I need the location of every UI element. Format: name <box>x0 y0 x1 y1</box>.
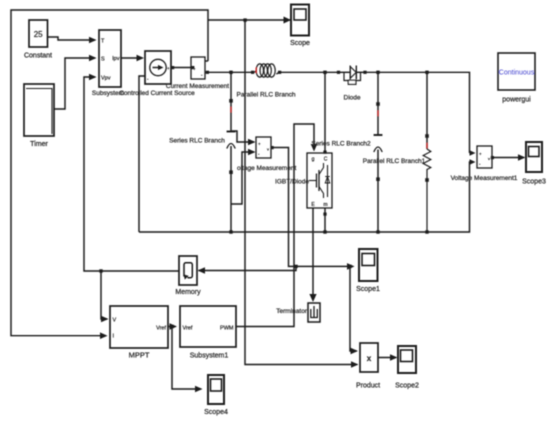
svg-text:Scope4: Scope4 <box>204 409 228 416</box>
wire: current signal top feedback bus <box>11 10 208 339</box>
wire: voltage measurement minus tap <box>231 149 256 204</box>
svg-text:Scope3: Scope3 <box>522 179 546 186</box>
svg-text:25: 25 <box>34 30 43 39</box>
wire: gate drive from PWM <box>236 124 317 327</box>
scope block Scope3 <box>522 142 546 186</box>
svg-text:Series RLC Branch: Series RLC Branch <box>169 138 225 145</box>
wire: current signal down to Product <box>245 20 359 368</box>
inductor L1 (Parallel RLC Branch) <box>237 64 296 99</box>
svg-text:v: v <box>267 147 269 152</box>
capacitor C_in (Series RLC Branch) <box>169 72 235 232</box>
wire: voltage signal down to Product input 1 <box>350 266 358 354</box>
svg-text:S: S <box>101 57 105 63</box>
wire: Vref branch down to Scope4 <box>172 327 203 393</box>
svg-text:Subsystem1: Subsystem1 <box>190 353 229 360</box>
svg-text:IGBT/Diode: IGBT/Diode <box>275 179 309 186</box>
svg-text:Product: Product <box>356 383 380 390</box>
diode D1 <box>337 66 367 102</box>
current measurement U3 <box>166 57 229 90</box>
scope block Scope2 <box>395 346 419 390</box>
wire: Constant to Subsystem T <box>48 37 97 44</box>
wire: Voltage Measurement1 output to Scope3 <box>491 154 526 161</box>
wire: voltage measurement plus tap <box>232 131 256 145</box>
svg-text:powergui: powergui <box>502 97 531 104</box>
node: junction memory output to MPPT V <box>99 269 102 272</box>
node: bus junction at input capacitor <box>229 71 232 74</box>
wire: Subsystem Ipv to Controlled Current Source <box>121 55 144 62</box>
svg-text:Vref: Vref <box>156 326 166 332</box>
svg-text:Ipv: Ipv <box>112 56 120 62</box>
wire: current measurement i output to Scope <box>205 17 291 62</box>
svg-text:+: + <box>479 152 482 157</box>
scope block Scope4 <box>204 375 228 416</box>
svg-text:+: + <box>167 66 170 71</box>
node: rail junction at IGBT emitter <box>323 230 326 233</box>
svg-text:m: m <box>323 202 327 208</box>
node: bus junction at IGBT collector <box>323 71 326 74</box>
svg-text:MPPT: MPPT <box>129 351 150 360</box>
node: junction voltage signal to memory <box>294 265 297 268</box>
svg-text:C: C <box>324 157 328 163</box>
svg-text:V: V <box>113 318 117 324</box>
svg-text:Series RLC Branch2: Series RLC Branch2 <box>311 141 371 148</box>
svg-text:g: g <box>312 157 315 163</box>
wire: voltage signal to Memory input <box>198 266 297 273</box>
subsystem1 block <box>180 306 236 360</box>
svg-text:Scope2: Scope2 <box>395 383 419 390</box>
svg-text:Memory: Memory <box>175 289 201 296</box>
wire: main dc bus <box>205 71 476 156</box>
node: rail junction at load resistor <box>425 230 428 233</box>
capacitor C_out (Series RLC Branch2) <box>311 72 382 232</box>
wire: Memory output to Vpv and MPPT V <box>84 74 179 271</box>
wire: CCS minus terminal down to bottom rail <box>139 76 145 232</box>
mppt block <box>110 306 168 360</box>
controlled current source U2 <box>119 51 195 97</box>
wire: IGBT emitter to rail <box>323 208 326 232</box>
svg-text:Scope1: Scope1 <box>356 286 380 293</box>
svg-text:Parallel RLC Branch: Parallel RLC Branch <box>237 92 296 99</box>
powergui block <box>498 53 535 104</box>
product block <box>356 343 380 390</box>
svg-text:PWM: PWM <box>220 326 234 332</box>
wire: Timer to Subsystem S <box>54 55 97 109</box>
svg-text:+: + <box>258 142 261 147</box>
svg-text:+: + <box>193 67 196 72</box>
svg-text:Diode: Diode <box>344 95 361 102</box>
svg-text:oltage Measurement: oltage Measurement <box>237 165 296 172</box>
igbt Q1 (IGBT/Diode) <box>275 153 332 208</box>
voltage measurement U4 <box>237 137 296 172</box>
wire: CCS plus terminal to Current Measurement <box>171 66 194 69</box>
svg-text:Voltage Measurement1: Voltage Measurement1 <box>451 175 518 182</box>
svg-text:Parallel RLC Branch1: Parallel RLC Branch1 <box>363 158 426 165</box>
memory block <box>175 256 201 296</box>
svg-text:Constant: Constant <box>24 53 52 60</box>
wire: measured voltage v to Scope1 <box>271 146 355 270</box>
wire: IGBT m output to Terminator <box>309 208 316 302</box>
svg-text:v: v <box>488 156 490 161</box>
resistor R_load (Parallel RLC Branch1) <box>363 72 431 232</box>
wire: MPPT Vref to Subsystem1 <box>168 323 177 330</box>
node: bus junction at load resistor <box>425 71 428 74</box>
svg-text:Controlled Current Source: Controlled Current Source <box>119 90 195 97</box>
wire: memory output down to MPPT V input <box>101 271 109 322</box>
svg-text:Vref: Vref <box>183 326 193 332</box>
wire: bottom return rail <box>139 159 476 232</box>
scope block Scope <box>290 5 310 48</box>
voltage measurement U5 (Voltage Measurement1) <box>451 146 518 182</box>
node: junction voltage signal to Product <box>348 265 351 268</box>
svg-text:Scope: Scope <box>290 40 310 47</box>
subsystem U1 (PV model) <box>92 30 124 97</box>
svg-text:Terminator: Terminator <box>276 308 308 315</box>
svg-text:Vpv: Vpv <box>101 76 111 82</box>
node: junction on scope wire <box>243 18 246 21</box>
node: bus junction at output capacitor <box>376 71 379 74</box>
wire: Product output to Scope2 <box>378 354 398 361</box>
wire: IGBT collector to bus <box>323 72 326 153</box>
svg-text:x: x <box>367 354 372 363</box>
node: rail junction at input capacitor <box>229 230 232 233</box>
svg-text:Timer: Timer <box>30 141 48 148</box>
constant C1 <box>24 20 52 60</box>
svg-text:Current Measurement: Current Measurement <box>166 83 229 90</box>
timer block <box>24 84 54 148</box>
terminator block <box>276 303 320 322</box>
scope block Scope1 <box>356 249 380 293</box>
svg-text:Continuous: Continuous <box>499 70 535 77</box>
node: rail junction at output capacitor <box>376 230 379 233</box>
